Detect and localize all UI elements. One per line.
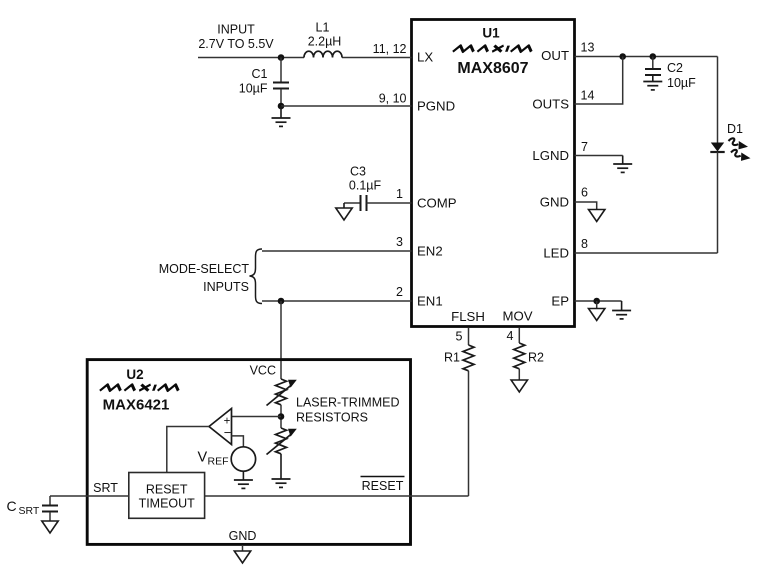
svg-text:SRT: SRT (19, 505, 40, 517)
wire junction to comparator (232, 416, 282, 418)
svg-text:INPUT: INPUT (217, 23, 255, 37)
wire input to LX (198, 57, 304, 59)
svg-text:REF: REF (208, 456, 229, 468)
svg-text:6: 6 (581, 186, 588, 200)
svg-text:RESET: RESET (362, 479, 404, 493)
svg-text:OUTS: OUTS (532, 97, 569, 112)
svg-text:LED: LED (543, 246, 569, 261)
svg-text:EP: EP (551, 294, 569, 309)
wire comparator minus to vref (232, 436, 244, 447)
voltage reference VREF (198, 447, 256, 480)
wire OUT pin13 (575, 56, 718, 58)
ground GND pin6 (589, 210, 605, 222)
laser-trimmed resistor upper (267, 379, 297, 428)
svg-text:4: 4 (507, 329, 514, 343)
svg-text:−: − (224, 425, 232, 440)
wire RESET output (205, 495, 469, 497)
wire GND pin6 (575, 202, 597, 210)
wire PGND (281, 105, 412, 107)
svg-text:1: 1 (396, 187, 403, 201)
ground LGND (613, 164, 632, 172)
mode-select brace (250, 249, 263, 304)
node input junction (278, 54, 285, 61)
node RESET label (361, 477, 405, 494)
svg-text:MAX6421: MAX6421 (103, 397, 170, 414)
svg-text:LX: LX (417, 50, 433, 65)
node divider junction (278, 413, 285, 420)
node OUT junction A (619, 53, 626, 60)
svg-text:2: 2 (396, 285, 403, 299)
svg-text:14: 14 (581, 89, 595, 103)
laser-trimmed resistor lower (267, 428, 297, 479)
svg-text:MODE-SELECT: MODE-SELECT (159, 262, 250, 276)
svg-text:OUT: OUT (541, 48, 569, 63)
svg-text:C1: C1 (252, 67, 268, 81)
ground vref (234, 480, 253, 488)
wire EN1 (262, 300, 412, 302)
svg-text:C2: C2 (667, 61, 683, 75)
svg-text:FLSH: FLSH (451, 309, 485, 324)
svg-text:11, 12: 11, 12 (373, 42, 407, 56)
svg-text:EN2: EN2 (417, 244, 443, 259)
resistor R2 (514, 328, 544, 380)
capacitor C1 (239, 58, 289, 107)
svg-text:U1: U1 (482, 26, 500, 41)
ground below C3 (336, 203, 352, 220)
node pgnd junction (278, 103, 285, 110)
wire EN1 to VCC (280, 301, 282, 379)
svg-text:10µF: 10µF (239, 82, 268, 96)
comparator (209, 409, 232, 445)
node EN1 junction (278, 298, 285, 305)
capacitor C2 (645, 57, 696, 91)
svg-text:SRT: SRT (93, 481, 118, 495)
svg-text:INPUTS: INPUTS (203, 280, 249, 294)
ground below C2 (643, 82, 662, 90)
capacitor C3 (344, 165, 412, 212)
svg-text:RESISTORS: RESISTORS (296, 411, 368, 425)
svg-text:C3: C3 (350, 165, 366, 179)
ground EP earth (612, 301, 631, 319)
wire comparator output (167, 427, 209, 473)
inductor L1 (304, 51, 342, 57)
node OUT junction B (650, 53, 657, 60)
IC U2 MAX6421 box (87, 360, 410, 545)
svg-text:MAX8607: MAX8607 (457, 60, 528, 77)
svg-text:R2: R2 (528, 351, 544, 365)
node EP junction (593, 298, 600, 305)
svg-text:TIMEOUT: TIMEOUT (139, 497, 196, 511)
svg-text:13: 13 (581, 41, 595, 55)
svg-text:3: 3 (396, 235, 403, 249)
svg-text:LASER-TRIMMED: LASER-TRIMMED (296, 396, 399, 410)
ground R2 (511, 380, 527, 392)
svg-text:LGND: LGND (532, 148, 569, 163)
capacitor CSRT (6, 496, 58, 521)
svg-text:VCC: VCC (250, 364, 276, 378)
wire EN2 (262, 250, 412, 252)
ground GND U2 (234, 545, 250, 563)
svg-text:2.2µH: 2.2µH (308, 35, 342, 49)
svg-text:MOV: MOV (502, 309, 532, 324)
svg-text:V: V (198, 450, 208, 466)
svg-text:0.1µF: 0.1µF (349, 179, 382, 193)
svg-text:9, 10: 9, 10 (379, 92, 407, 106)
svg-text:5: 5 (456, 330, 463, 344)
reset timeout block (129, 473, 205, 519)
svg-text:10µF: 10µF (667, 76, 696, 90)
svg-text:RESET: RESET (146, 483, 188, 497)
wire EP (575, 300, 622, 302)
svg-text:2.7V TO 5.5V: 2.7V TO 5.5V (198, 37, 274, 51)
wire OUTS pin14 (575, 57, 623, 105)
IC U1 MAX8607 (412, 20, 575, 327)
ground below C1 (272, 106, 291, 126)
ground CSRT (42, 521, 58, 533)
wire LGND pin7 (575, 156, 623, 165)
svg-text:L1: L1 (316, 21, 330, 35)
svg-text:R1: R1 (444, 351, 460, 365)
ground lower resistor (272, 479, 291, 487)
LED D1 (710, 57, 750, 254)
resistor R1 (444, 328, 474, 496)
svg-text:COMP: COMP (417, 196, 457, 211)
svg-text:EN1: EN1 (417, 294, 443, 309)
ground EP triangle (589, 301, 605, 321)
svg-text:PGND: PGND (417, 99, 455, 114)
svg-text:GND: GND (540, 195, 569, 210)
svg-text:GND: GND (229, 529, 257, 543)
wire SRT (50, 495, 129, 497)
svg-text:8: 8 (581, 237, 588, 251)
svg-text:C: C (6, 498, 16, 514)
svg-text:7: 7 (581, 140, 588, 154)
svg-text:U2: U2 (126, 367, 143, 382)
svg-text:D1: D1 (727, 122, 743, 136)
wire LED pin8 (575, 252, 718, 254)
